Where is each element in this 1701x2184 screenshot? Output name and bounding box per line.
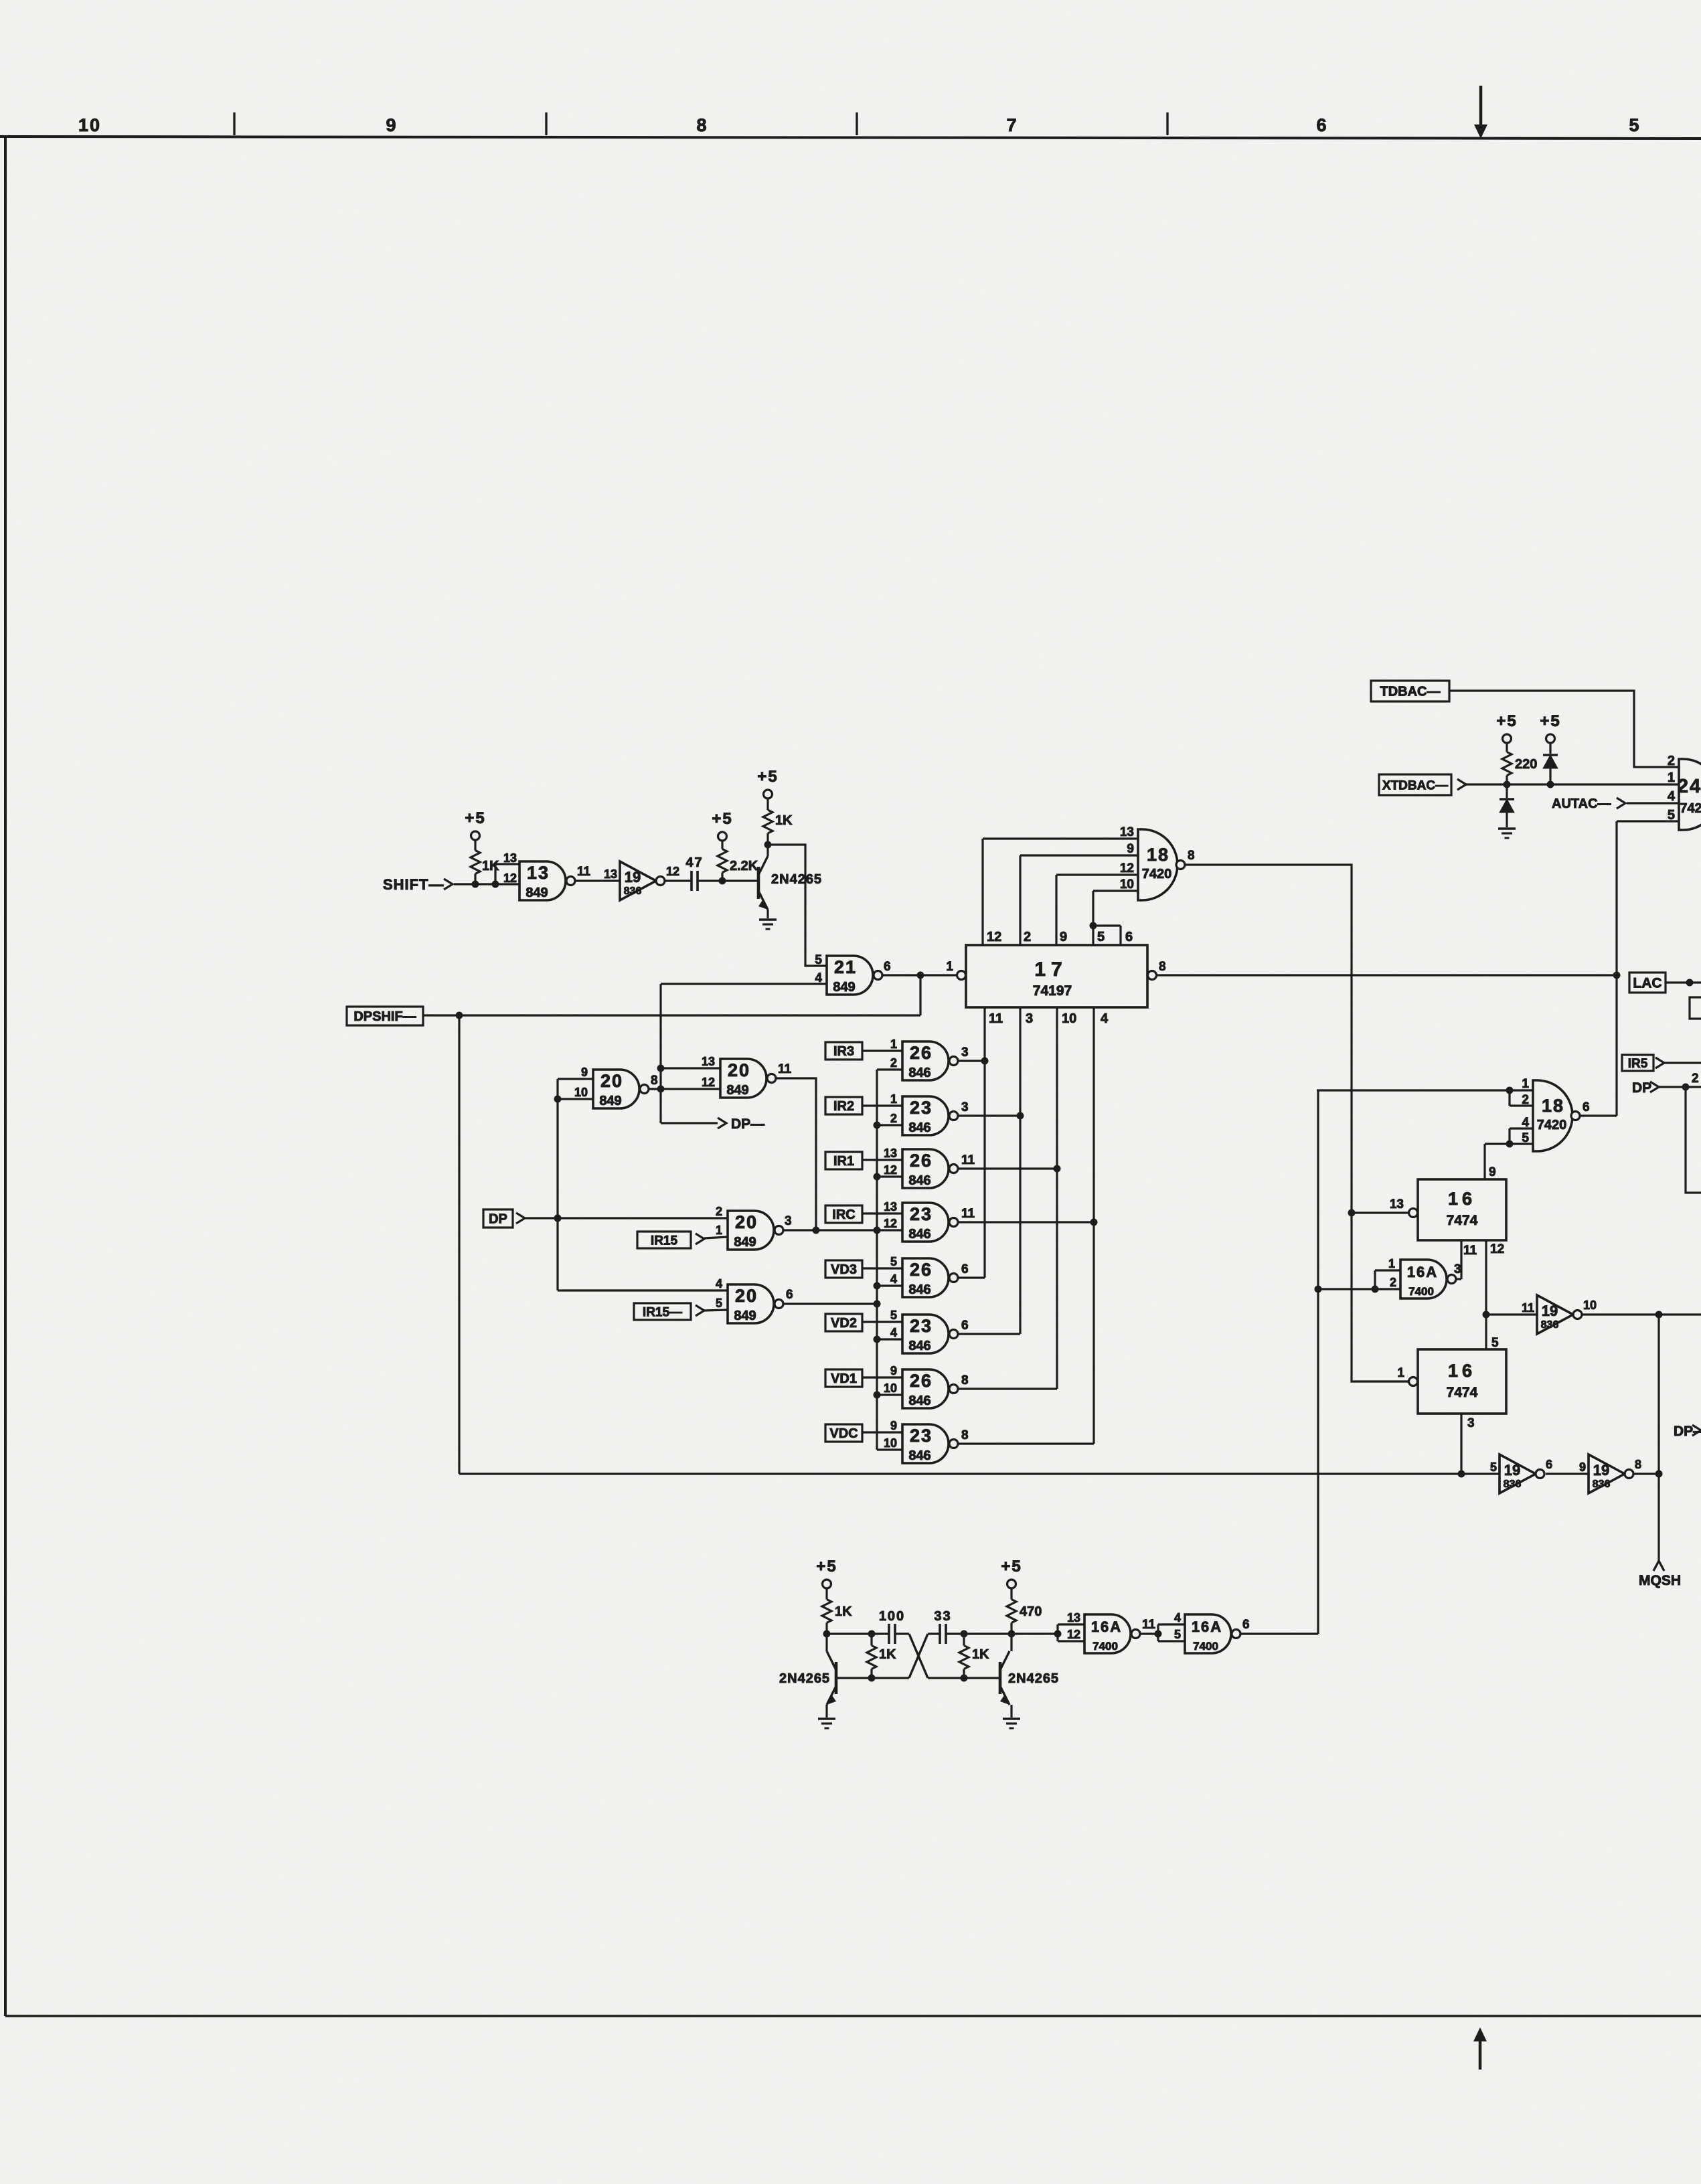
svg-text:+5: +5 [757,768,778,786]
svg-text:10: 10 [1062,1011,1076,1026]
svg-text:1K: 1K [835,1604,852,1619]
svg-text:5: 5 [890,1309,897,1322]
svg-text:1K: 1K [972,1647,989,1662]
svg-text:5: 5 [1097,930,1105,944]
svg-text:12: 12 [1490,1242,1504,1256]
svg-text:16: 16 [1448,1189,1476,1209]
svg-text:13: 13 [1390,1197,1404,1211]
svg-text:1: 1 [1388,1257,1395,1270]
svg-text:849: 849 [734,1235,756,1250]
svg-text:12: 12 [503,871,517,885]
svg-text:23: 23 [910,1098,933,1118]
svg-text:6: 6 [961,1319,969,1333]
svg-text:5: 5 [890,1255,897,1268]
svg-text:+5: +5 [465,809,485,827]
svg-text:24: 24 [1678,776,1701,797]
svg-text:6: 6 [1583,1100,1590,1114]
svg-text:3: 3 [1467,1416,1475,1430]
svg-text:8: 8 [961,1373,969,1388]
svg-text:+5: +5 [1001,1558,1022,1576]
svg-text:+5: +5 [712,810,732,828]
svg-text:1: 1 [716,1224,722,1237]
svg-text:846: 846 [908,1227,930,1242]
svg-text:836: 836 [1504,1479,1522,1490]
svg-text:13: 13 [1120,825,1134,839]
svg-text:9: 9 [890,1364,897,1377]
svg-text:10: 10 [884,1381,897,1395]
svg-text:849: 849 [525,886,548,900]
svg-text:7400: 7400 [1408,1285,1434,1298]
svg-text:VDC: VDC [829,1426,858,1441]
svg-text:12: 12 [1067,1628,1080,1641]
svg-text:1: 1 [890,1037,897,1051]
svg-text:8: 8 [651,1074,658,1088]
svg-text:16: 16 [1448,1361,1476,1381]
svg-text:1: 1 [946,960,953,974]
svg-text:1K: 1K [879,1647,896,1662]
svg-text:4: 4 [1668,789,1676,804]
svg-text:12: 12 [1120,861,1134,875]
svg-text:17: 17 [1034,958,1067,981]
svg-text:IR15: IR15 [651,1234,678,1248]
svg-text:10: 10 [78,115,101,135]
svg-text:9: 9 [1579,1460,1586,1474]
svg-text:16A: 16A [1192,1618,1222,1635]
svg-text:SHIFT—: SHIFT— [383,876,444,893]
svg-text:849: 849 [734,1309,756,1323]
svg-text:4: 4 [1101,1011,1109,1026]
svg-text:19: 19 [1542,1303,1558,1319]
svg-text:4: 4 [890,1272,897,1286]
svg-text:74197: 74197 [1033,983,1072,999]
svg-text:16A: 16A [1091,1618,1122,1635]
svg-text:2N4265: 2N4265 [771,872,822,887]
svg-text:IR5: IR5 [1628,1057,1648,1071]
svg-text:3: 3 [1454,1262,1461,1276]
svg-text:9: 9 [386,115,397,135]
svg-text:5: 5 [716,1296,722,1310]
svg-text:846: 846 [908,1120,930,1135]
svg-text:4: 4 [1174,1611,1181,1624]
svg-text:9: 9 [581,1066,588,1079]
svg-text:26: 26 [910,1151,933,1171]
svg-text:TDBAC—: TDBAC— [1380,685,1441,699]
svg-text:742: 742 [1680,801,1701,816]
svg-text:21: 21 [834,957,857,977]
svg-text:20: 20 [728,1060,750,1080]
svg-text:849: 849 [726,1083,748,1098]
svg-text:8: 8 [961,1428,969,1442]
svg-text:9: 9 [1060,930,1067,944]
svg-text:19: 19 [1504,1462,1520,1479]
svg-text:26: 26 [910,1371,933,1391]
svg-text:849: 849 [599,1094,621,1108]
svg-text:836: 836 [1593,1479,1611,1490]
svg-text:IR2: IR2 [833,1099,854,1114]
svg-text:846: 846 [908,1066,930,1080]
svg-text:13: 13 [527,863,550,883]
svg-text:IR15—: IR15— [643,1305,682,1319]
svg-text:7420: 7420 [1537,1118,1567,1132]
svg-text:8: 8 [1635,1458,1641,1471]
svg-text:18: 18 [1147,845,1169,865]
svg-text:DP—: DP— [1674,1424,1701,1439]
svg-text:4: 4 [890,1326,897,1339]
svg-text:11: 11 [577,865,591,879]
svg-text:7400: 7400 [1092,1640,1118,1653]
svg-text:1: 1 [1522,1077,1529,1091]
svg-text:VD1: VD1 [831,1371,857,1386]
svg-text:2: 2 [1668,754,1675,768]
svg-text:2: 2 [1390,1276,1396,1289]
svg-text:AUTAC—: AUTAC— [1552,796,1611,811]
svg-text:2: 2 [1024,930,1031,944]
svg-text:10: 10 [884,1436,897,1450]
svg-text:23: 23 [910,1426,933,1446]
svg-text:DPSHIF—: DPSHIF— [353,1009,416,1024]
svg-text:12: 12 [987,930,1001,944]
svg-text:3: 3 [961,1045,969,1060]
svg-text:836: 836 [1541,1319,1559,1331]
svg-text:1: 1 [890,1092,897,1106]
svg-text:2: 2 [1692,1072,1699,1086]
svg-text:19: 19 [1593,1462,1609,1479]
svg-text:1K: 1K [775,813,793,828]
svg-text:11: 11 [961,1153,975,1167]
svg-text:1K: 1K [482,859,499,873]
svg-text:5: 5 [1490,1460,1497,1474]
svg-text:2: 2 [890,1056,897,1070]
svg-text:23: 23 [910,1316,933,1336]
svg-text:6: 6 [1125,930,1133,944]
svg-text:12: 12 [884,1163,897,1177]
svg-text:2N4265: 2N4265 [1008,1671,1059,1686]
svg-text:7474: 7474 [1447,1385,1478,1400]
svg-text:5: 5 [815,953,822,967]
svg-text:2: 2 [890,1112,897,1125]
svg-text:6: 6 [1316,115,1327,135]
svg-text:26: 26 [910,1043,933,1063]
svg-text:23: 23 [910,1204,933,1224]
svg-text:5: 5 [1491,1336,1499,1350]
svg-text:12: 12 [666,865,679,878]
svg-text:10: 10 [1583,1298,1597,1312]
svg-text:6: 6 [1242,1618,1250,1632]
svg-text:1: 1 [1397,1366,1404,1380]
svg-text:13: 13 [604,867,617,881]
svg-text:8: 8 [1159,960,1166,974]
svg-text:846: 846 [908,1448,930,1463]
svg-text:IRC: IRC [832,1207,855,1222]
svg-text:XTDBAC—: XTDBAC— [1382,778,1448,792]
svg-text:11: 11 [989,1011,1003,1026]
svg-text:12: 12 [702,1076,715,1089]
svg-text:8: 8 [696,115,708,135]
svg-text:LAC: LAC [1633,976,1662,991]
svg-text:6: 6 [786,1288,793,1302]
svg-text:19: 19 [625,869,641,886]
svg-text:MQSH: MQSH [1639,1573,1681,1588]
svg-text:220: 220 [1515,757,1537,772]
svg-text:836: 836 [624,886,642,897]
svg-text:20: 20 [735,1212,758,1232]
svg-text:846: 846 [908,1339,930,1353]
svg-text:16A: 16A [1407,1264,1438,1280]
svg-text:+5: +5 [1496,712,1517,730]
svg-text:9: 9 [1127,842,1134,856]
svg-text:6: 6 [1546,1458,1552,1471]
svg-text:7420: 7420 [1142,867,1172,881]
svg-text:12: 12 [884,1217,897,1230]
svg-text:2: 2 [716,1205,722,1218]
svg-text:10: 10 [1120,877,1134,892]
svg-text:20: 20 [600,1071,623,1091]
svg-text:7474: 7474 [1447,1213,1478,1228]
svg-text:DP: DP [489,1212,507,1227]
svg-text:47: 47 [685,855,703,870]
svg-text:2.2K: 2.2K [730,859,758,873]
svg-text:6: 6 [884,960,891,974]
svg-text:VD3: VD3 [831,1262,857,1277]
svg-text:7: 7 [1006,115,1018,135]
svg-text:13: 13 [884,1200,897,1213]
svg-text:DP: DP [1632,1080,1651,1096]
svg-text:13: 13 [1067,1611,1080,1624]
svg-text:+5: +5 [1540,712,1560,730]
svg-text:IR1: IR1 [833,1154,854,1169]
svg-text:7400: 7400 [1193,1640,1218,1653]
svg-text:8: 8 [1188,849,1195,863]
svg-text:11: 11 [778,1062,792,1076]
svg-text:13: 13 [884,1147,897,1160]
svg-text:11: 11 [961,1207,975,1221]
svg-text:20: 20 [735,1286,758,1306]
svg-text:3: 3 [1026,1011,1033,1026]
svg-text:100: 100 [879,1609,905,1624]
svg-text:470: 470 [1020,1604,1042,1619]
svg-text:6: 6 [961,1262,969,1276]
svg-text:846: 846 [908,1282,930,1297]
svg-text:9: 9 [890,1419,897,1432]
svg-text:33: 33 [934,1609,951,1624]
svg-text:3: 3 [961,1100,969,1114]
svg-text:1: 1 [1668,770,1675,785]
svg-text:13: 13 [503,851,517,865]
svg-text:11: 11 [1142,1618,1156,1632]
svg-text:+5: +5 [816,1558,837,1576]
svg-text:846: 846 [908,1394,930,1408]
svg-text:10: 10 [574,1086,588,1099]
svg-text:13: 13 [702,1055,715,1068]
svg-text:IR3: IR3 [833,1044,854,1059]
svg-text:3: 3 [785,1214,792,1228]
svg-text:5: 5 [1668,808,1675,823]
svg-text:18: 18 [1542,1096,1564,1116]
svg-text:VD2: VD2 [831,1316,857,1331]
svg-text:849: 849 [833,980,855,995]
svg-text:2N4265: 2N4265 [779,1671,830,1686]
svg-text:846: 846 [908,1173,930,1188]
svg-text:5: 5 [1629,115,1640,135]
svg-text:11: 11 [1463,1244,1477,1258]
svg-text:9: 9 [1489,1165,1496,1179]
svg-text:4: 4 [716,1277,722,1290]
svg-text:DP—: DP— [731,1116,764,1132]
svg-text:26: 26 [910,1260,933,1280]
svg-text:5: 5 [1174,1628,1181,1641]
svg-text:11: 11 [1522,1301,1534,1315]
